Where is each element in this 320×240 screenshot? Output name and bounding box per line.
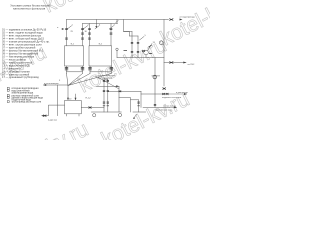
mid-right small valve — [119, 91, 122, 93]
svg-text:раствора соли: раствора соли — [98, 78, 113, 80]
valves under vessel pipe1 — [65, 68, 68, 70]
valve riser2 b — [81, 33, 84, 34]
down pipe 2 — [82, 66, 84, 74]
manifold feed arrow — [180, 19, 183, 21]
down pipe 3 — [89, 66, 91, 74]
bypass vertical B — [137, 36, 139, 58]
bottom right line — [141, 91, 169, 107]
down pipe 1 — [66, 66, 68, 74]
leader line riser4 — [110, 26, 114, 29]
vent stub — [116, 51, 118, 58]
gauge2 circle — [159, 41, 163, 45]
bypass vertical A — [131, 32, 133, 58]
drain line to sewer — [44, 84, 69, 86]
lower right line — [143, 106, 170, 108]
bypass left tick — [124, 50, 128, 52]
valve riser3 b — [88, 33, 91, 34]
gauge2 stub — [163, 44, 164, 45]
tank feed drop — [67, 86, 69, 100]
ladderB valves — [107, 81, 109, 106]
bottom tie vessel1 — [67, 71, 83, 73]
leader line riser1 — [68, 26, 72, 29]
riser pipe vessel2 left — [89, 24, 91, 46]
drain drop vertical — [56, 85, 58, 116]
valve riser2 c — [81, 38, 84, 39]
valve riser2 a — [81, 28, 84, 29]
manifold 2 — [83, 23, 118, 25]
sampling arrow — [95, 26, 97, 28]
valve on riser1 lower — [65, 38, 68, 39]
down pipe 4 — [110, 66, 112, 74]
valve riser3 a — [88, 28, 91, 29]
schematic — [42, 20, 187, 119]
valve blobs — [43, 19, 173, 117]
meter inlet valve — [142, 50, 145, 52]
sampling stub — [95, 20, 97, 28]
jumper valve tick — [116, 21, 118, 23]
eductor diagonal — [96, 76, 119, 89]
riser pipe vessel2 right — [110, 24, 112, 46]
small labels — [44, 17, 196, 122]
gauge circle — [144, 50, 149, 55]
collector diag arrowhead — [133, 117, 135, 119]
bottom collector right — [133, 111, 146, 113]
suction arrow line — [97, 85, 120, 87]
vessel F1 — [65, 46, 84, 66]
bottom tie vessel2 — [90, 71, 111, 73]
pump ladder vertical A — [103, 79, 105, 112]
valves under vessel pipe3 — [88, 68, 91, 70]
riser feed arrow — [62, 28, 65, 30]
riser pipe vessel1 left — [66, 20, 68, 46]
ladder2 valves — [137, 102, 139, 106]
svg-text:умягчённая вода: умягчённая вода — [156, 110, 173, 112]
title — [10, 3, 51, 10]
svg-text:из водопровода: из водопровода — [180, 17, 196, 19]
svg-text:в канализацию: в канализацию — [44, 83, 59, 85]
bypass top tie — [130, 35, 139, 37]
svg-text:трубопровод раствора соли: трубопровод раствора соли — [12, 102, 42, 104]
svg-text:в дренаж: в дренаж — [48, 119, 58, 121]
manifold1 end valve — [169, 19, 173, 21]
tank feed stub2 — [75, 94, 77, 100]
V1 stub — [152, 75, 160, 77]
V1 lower valve — [154, 105, 156, 106]
GVS line — [164, 62, 186, 64]
lower legend symbols — [7, 87, 43, 103]
ladderA valves — [103, 81, 105, 106]
right vertical V2 — [163, 20, 165, 87]
valve riser4 a — [110, 28, 113, 29]
tank drain valve — [43, 115, 46, 117]
bottom collector left — [91, 111, 121, 113]
meter marks — [149, 45, 153, 53]
tank outlet line — [81, 107, 104, 109]
bypassA valves — [131, 43, 133, 53]
GVS arrow — [183, 62, 186, 64]
riser pipe vessel1 right — [82, 24, 84, 46]
vent circle — [116, 48, 118, 50]
collector arrow diag — [134, 115, 137, 119]
valve riser4 b — [110, 33, 113, 34]
svg-text:подпитка теплосети: подпитка теплосети — [162, 97, 182, 99]
lower right thin continue — [170, 106, 177, 108]
pump ladder vertical B — [107, 79, 109, 112]
gauge circle stub — [145, 55, 147, 58]
pump circle left — [93, 114, 96, 117]
bypass tie at 31.5 — [124, 31, 133, 33]
svg-text:в бак запаса: в бак запаса — [164, 106, 177, 108]
drain funnel diagonals — [67, 74, 112, 86]
ladder top tie — [104, 78, 108, 80]
watermark kotel-kv.ru tiles — [0, 0, 252, 181]
V2 valve — [163, 88, 166, 90]
ladder2 vertical — [138, 100, 140, 112]
svg-text:17 — дренажный трубопровод: 17 — дренажный трубопровод — [2, 75, 39, 79]
valve riser3 c — [88, 38, 91, 39]
tank feed arrow — [67, 98, 69, 101]
pump on V1 — [153, 75, 157, 79]
GVS valve — [169, 62, 173, 64]
leader line riser2 — [84, 26, 88, 29]
bypass leader line — [140, 37, 145, 41]
tank drain L — [42, 105, 65, 116]
jumper between manifolds — [116, 20, 118, 24]
drain arrow — [43, 84, 46, 86]
bypassB valves — [137, 43, 139, 53]
bottom right thin continue — [169, 93, 187, 95]
svg-text:катионитных фильтров: катионитных фильтров — [13, 6, 45, 10]
pump circle right — [118, 113, 121, 116]
svg-text:в деаэратор: в деаэратор — [176, 92, 189, 94]
bottom-right valves — [162, 93, 168, 95]
right vertical V1 — [154, 58, 156, 108]
meter line — [117, 57, 164, 59]
legend list — [2, 28, 50, 80]
valve on riser1 — [65, 28, 68, 29]
valves under vessel pipe2 — [81, 68, 84, 70]
tank outlet valve — [89, 107, 92, 109]
svg-text:на ГВС: на ГВС — [188, 64, 195, 66]
valves under vessel pipe4 — [110, 68, 113, 70]
meter leader line — [148, 44, 153, 51]
vessel F2 — [89, 46, 112, 66]
bypass feed corner — [124, 20, 130, 37]
L line right — [119, 86, 139, 112]
tank feet — [67, 114, 80, 116]
tank drain arrow — [41, 115, 44, 117]
svg-text:химочищенная вода: химочищенная вода — [12, 92, 34, 94]
suction arrow — [116, 85, 119, 87]
manifold 1 — [67, 19, 169, 21]
bottom right arrow — [184, 93, 187, 95]
leader line riser3 — [95, 26, 99, 29]
tank (salt solution) — [65, 101, 82, 114]
lower right arrow — [174, 106, 177, 108]
mid right line — [108, 90, 141, 92]
arrows — [41, 19, 187, 120]
svg-text:Н-1,2: Н-1,2 — [86, 97, 92, 99]
